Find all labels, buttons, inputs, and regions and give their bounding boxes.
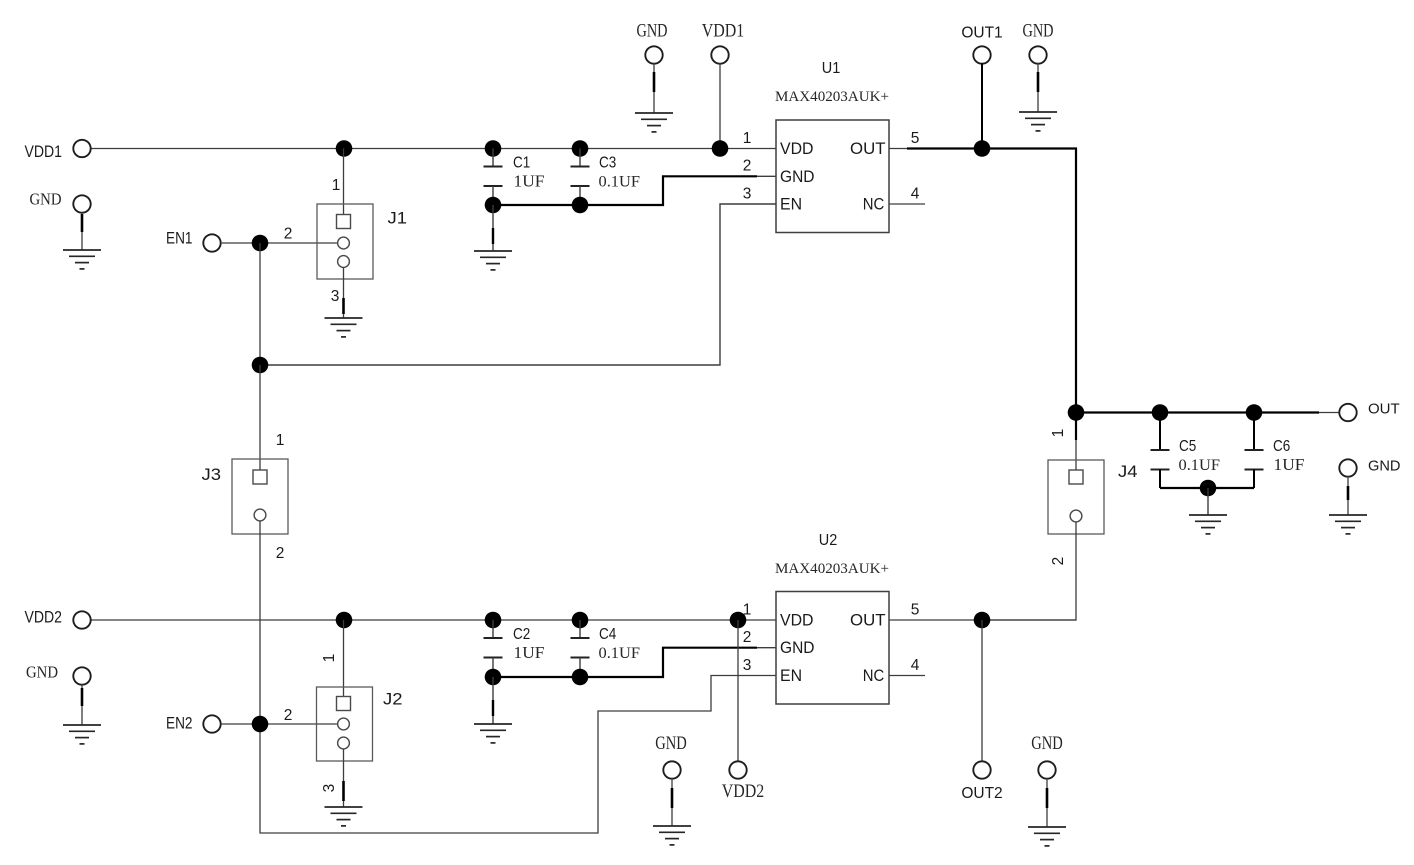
svg-text:2: 2 [743,629,752,646]
wire U1 GND pin stub [757,175,776,177]
wire OUT1 terminal down [981,63,983,148]
ground symbol below C2 [474,724,512,743]
junction EN2 node [252,716,269,733]
svg-text:GND: GND [26,663,58,682]
svg-text:1UF: 1UF [1274,455,1305,474]
svg-text:C3: C3 [599,155,616,172]
junction C2 top [485,612,502,629]
svg-text:1: 1 [276,432,285,449]
ground symbol (right) [1329,515,1367,534]
svg-text:J1: J1 [388,209,408,228]
svg-text:1: 1 [332,177,341,194]
svg-text:4: 4 [911,657,920,674]
terminal GND (bottom middle) [663,761,680,826]
terminal VDD1 (left) [73,140,90,157]
ground symbol (top middle) [635,113,673,132]
svg-text:1UF: 1UF [514,172,545,191]
wire EN2 to J2 pin 2 [221,723,338,725]
ground symbol (bottom right) [1028,827,1066,846]
IC U1 [776,120,889,233]
svg-text:1: 1 [1050,429,1067,438]
junction C5 top [1152,404,1169,421]
svg-text:MAX40203AUK+: MAX40203AUK+ [775,89,889,105]
IC U2 [776,592,889,705]
svg-text:1: 1 [743,602,752,619]
wire net OUT2 from U2 OUT pin [889,619,1076,621]
ground symbol (top right) [1019,112,1057,131]
ground symbol below J2 [325,807,363,826]
svg-text:GND: GND [637,21,668,41]
wire C5 C6 ground bus (thick) [1160,487,1254,489]
svg-text:C5: C5 [1179,438,1196,455]
svg-text:3: 3 [743,186,752,203]
svg-text:EN2: EN2 [166,714,193,733]
connector J3 [232,459,288,534]
junction OUT2 [974,612,991,629]
junction C2 bottom [485,669,502,686]
svg-text:J4: J4 [1118,462,1138,481]
terminal OUT1 (top) [973,46,990,63]
junction J1-pin1 / VDD1 [336,140,353,157]
svg-text:1UF: 1UF [514,643,545,662]
terminal VDD2 (left) [73,611,90,628]
svg-text:OUT: OUT [1368,401,1400,418]
wire C2 bottom to ground [492,677,494,724]
wire J2 pin 3 to ground [343,749,345,807]
terminal VDD1 (top) [711,46,728,63]
wire U2 NC pin stub [889,675,925,677]
capacitor C5 [1151,413,1170,489]
svg-text:3: 3 [321,784,338,793]
svg-text:VDD: VDD [780,611,814,630]
svg-text:VDD1: VDD1 [702,21,745,41]
svg-text:4: 4 [911,186,920,203]
svg-text:C2: C2 [513,626,530,643]
svg-text:2: 2 [276,545,285,562]
terminal VDD2 (bottom) [729,761,746,778]
terminal GND (bottom right) [1038,761,1055,827]
svg-text:0.1UF: 0.1UF [1179,457,1221,474]
svg-text:C6: C6 [1273,438,1290,455]
ground symbol (upper left) [63,250,101,269]
svg-text:3: 3 [331,288,340,305]
wire VDD2 terminal drop [737,620,739,762]
capacitor C4 [571,620,590,677]
capacitor C2 [484,620,503,677]
svg-text:GND: GND [1031,734,1063,754]
wire GND bus U1 (thick) [493,176,757,205]
svg-text:VDD: VDD [780,139,814,158]
svg-text:U2: U2 [819,532,838,549]
ground symbol below C5 C6 [1189,515,1227,534]
terminal GND (right) [1339,459,1356,515]
capacitor C6 [1245,413,1264,489]
svg-text:NC: NC [863,195,885,214]
wire net VDD1 horizontal [91,148,777,150]
junction C3 bottom [572,197,589,214]
svg-text:EN: EN [780,666,802,685]
wire OUT2 terminal drop [981,620,983,762]
wire J2 pin 1 from VDD2 [343,620,345,697]
junction OUT1 [974,140,991,157]
terminal OUT (right) [1339,404,1356,421]
svg-text:GND: GND [655,734,687,754]
terminal EN2 [203,715,220,732]
svg-text:1: 1 [321,654,338,663]
terminal OUT2 (bottom) [973,761,990,778]
ground symbol (bottom middle) [653,826,691,845]
svg-text:GND: GND [1368,458,1401,475]
junction J2-pin1 / VDD2 [336,612,353,629]
junction VDD2 terminal drop [730,612,747,629]
ground symbol below C1 [474,251,512,270]
junction C4 bottom [572,669,589,686]
svg-text:GND: GND [1023,21,1054,41]
svg-text:5: 5 [911,602,920,619]
wire net VDD2 horizontal [91,619,777,621]
wire net OUT horizontal (thick) [1076,411,1319,413]
wire EN net J3 pin 1 [259,365,261,470]
wire ground stem C5 C6 [1207,488,1209,515]
svg-text:5: 5 [911,130,920,147]
terminal GND (lower left) [73,667,90,725]
svg-text:VDD2: VDD2 [722,782,765,802]
connector J2 [317,687,373,761]
svg-text:OUT: OUT [850,611,886,630]
terminal GND (top right) [1029,46,1046,112]
junction EN1 node [252,235,269,252]
wire J4 pin 2 to OUT2 net [982,522,1076,620]
junction C5 C6 ground [1200,480,1217,497]
svg-text:EN1: EN1 [166,229,193,248]
svg-text:0.1UF: 0.1UF [599,645,641,662]
junction C1 bottom [485,197,502,214]
junction EN net at EN1 column [252,357,269,374]
svg-text:NC: NC [863,666,885,685]
wire J1 pin 3 to ground [343,267,345,318]
terminal GND (top middle) [645,46,662,113]
terminal GND (upper left) [73,195,90,250]
connector J4 [1048,460,1104,534]
svg-text:MAX40203AUK+: MAX40203AUK+ [775,561,889,577]
wire C1 bottom to ground [492,205,494,251]
svg-text:2: 2 [284,226,293,243]
wire U2 GND pin stub [757,647,776,649]
ground symbol (lower left) [63,725,101,744]
wire VDD1 top terminal down [719,63,721,148]
svg-text:VDD2: VDD2 [25,608,63,627]
wire EN1 node down to EN net junction [259,243,261,365]
svg-text:J3: J3 [202,465,222,484]
svg-text:2: 2 [1050,557,1067,566]
wire J3 pin 2 down to EN2 node and bottom route [260,521,776,833]
svg-text:C1: C1 [513,155,530,172]
junction C3 top [572,140,589,157]
svg-text:1: 1 [743,130,752,147]
junction OUT net / J4 pin 1 [1068,404,1085,421]
capacitor C3 [571,149,590,206]
junction C1 top [485,140,502,157]
svg-text:U1: U1 [822,60,841,77]
wire GND bus U2 (thick) [493,648,757,677]
wire OUT terminal stub [1319,412,1340,414]
svg-text:VDD1: VDD1 [25,142,63,161]
svg-text:GND: GND [780,167,815,186]
wire EN1 to J1 pin 2 [221,242,338,244]
connector J1 [317,204,373,279]
wire U1 OUT pin stub [889,148,907,150]
wire J1 pin 1 from VDD1 [343,149,345,215]
capacitor C1 [484,149,503,206]
wire J4 pin 1 [1075,413,1077,471]
svg-text:OUT2: OUT2 [961,785,1002,802]
wire U1 NC pin stub [889,203,925,205]
svg-text:OUT: OUT [850,139,886,158]
svg-text:GND: GND [780,638,815,657]
ground symbol below J1 [325,318,363,337]
svg-text:2: 2 [743,158,752,175]
svg-text:J2: J2 [383,690,403,709]
junction C6 top [1246,404,1263,421]
svg-text:2: 2 [284,707,293,724]
svg-text:OUT1: OUT1 [961,25,1002,42]
terminal EN1 [203,234,220,251]
svg-text:EN: EN [780,195,802,214]
junction VDD1 terminal drop [712,140,729,157]
svg-text:C4: C4 [599,626,617,643]
wire net OUT1 (thick) [907,149,1076,413]
wire EN net U1 (pin3 to EN1 node) [260,204,776,365]
svg-text:3: 3 [743,657,752,674]
svg-text:0.1UF: 0.1UF [599,174,641,191]
junction C4 top [572,612,589,629]
svg-text:GND: GND [30,190,62,209]
